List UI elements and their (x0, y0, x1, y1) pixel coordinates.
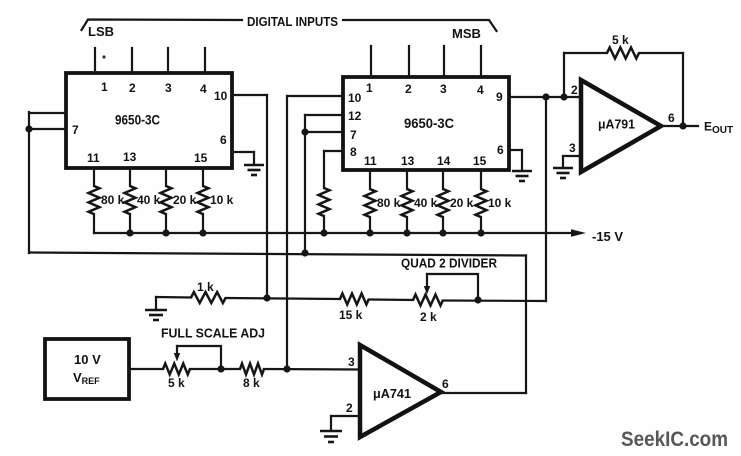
svg-text:1: 1 (101, 80, 108, 94)
wire feedback drop x=683 (682, 53, 684, 126)
wire 5k-8k segment (190, 368, 240, 370)
wire U1 pin 4 stub (204, 48, 206, 73)
wire ladder2 bottom stubs (370, 217, 481, 233)
DAC U1 9650-3C body (66, 73, 232, 168)
resistor 20k (U1 ladder) (161, 186, 172, 214)
svg-text:3: 3 (440, 82, 447, 96)
svg-text:QUAD 2 DIVIDER: QUAD 2 DIVIDER (401, 257, 497, 271)
svg-text:2: 2 (129, 81, 136, 95)
wire vertical x=324 (U2 pin8 to resistor) (323, 151, 325, 188)
svg-text:7: 7 (350, 128, 357, 142)
wire U1 pin 11 stub (93, 168, 95, 186)
junction at (267,298) (263, 294, 270, 301)
svg-text:3: 3 (348, 355, 355, 369)
junction at (221,369) (217, 365, 224, 372)
wiper arrow of 5k pot (176, 346, 178, 355)
svg-text:20 k: 20 k (173, 193, 197, 207)
svg-text:EOUT: EOUT (704, 120, 733, 137)
junction at (305,253) (301, 249, 308, 256)
wire U1 pin 14 stub (165, 168, 167, 186)
junction ladder2 at (370,233) (366, 229, 373, 236)
resistor unlabeled (U2 pin 8) (319, 188, 330, 216)
svg-text:2: 2 (346, 401, 353, 415)
wire vertical x=526 (feedback down to A741 output) (525, 256, 527, 394)
svg-text:6: 6 (497, 143, 504, 157)
ground at U3 pin 2 (320, 431, 342, 442)
svg-text:8 k: 8 k (243, 376, 260, 390)
svg-text:9650-3C: 9650-3C (404, 115, 454, 131)
wire vertical x=305 (U2 pins 12/7 to feedback wire) (304, 115, 306, 253)
svg-text:80 k: 80 k (101, 193, 125, 207)
junction ladder2 at (481,233) (477, 229, 484, 236)
svg-text:40 k: 40 k (137, 193, 161, 207)
wire U3 pin 2 segment (331, 415, 360, 417)
svg-text:2: 2 (571, 83, 578, 97)
resistor R 15k (340, 294, 369, 305)
svg-text:μA791: μA791 (598, 118, 635, 132)
resistor R 5k feedback (607, 48, 639, 59)
svg-text:DIGITAL INPUTS: DIGITAL INPUTS (247, 14, 338, 29)
ground at U4 pin 3 (553, 168, 573, 178)
svg-text:10 k: 10 k (210, 193, 234, 207)
wire U1 pin 6 horizontal (232, 151, 254, 153)
wire 15k-2k segment (369, 298, 413, 301)
wire U1 pin 1 stub (94, 48, 96, 73)
svg-text:3: 3 (165, 81, 172, 95)
wire pin8 resistor bottom stub (323, 216, 325, 233)
wire U1 pin 6 ground stub (253, 152, 255, 165)
wire U1 pin 2 stub (131, 48, 133, 73)
wire feedback top segment b (639, 52, 683, 54)
svg-text:6: 6 (668, 111, 675, 125)
ground of 1k resistor network (155, 297, 157, 310)
resistor 10k (U1 ladder) (198, 186, 209, 214)
junction at (683,126) (679, 122, 686, 129)
junction at (29,129) (25, 125, 32, 132)
wire U3 output segment (441, 392, 526, 394)
svg-text:FULL SCALE ADJ: FULL SCALE ADJ (161, 327, 265, 341)
svg-text:1: 1 (366, 81, 373, 95)
wire U3 pin 2 ground stub (330, 416, 332, 431)
resistor 80k (U1 ladder) (89, 186, 100, 214)
wire 1k net segment a (156, 296, 191, 299)
junction at (564,97) (560, 93, 567, 100)
svg-text:80 k: 80 k (377, 196, 401, 210)
junction ladder1 at (203,233) (199, 229, 206, 236)
svg-text:12: 12 (348, 109, 362, 123)
wire 5k wiper loop (177, 346, 221, 369)
svg-text:15: 15 (473, 154, 487, 168)
potentiometer R 2k (413, 295, 443, 306)
junction pin8 resistor at (324,233) (320, 229, 327, 236)
svg-text:9: 9 (496, 90, 503, 104)
resistor 40k (U1 ladder) (125, 186, 136, 214)
resistor R 8k (240, 364, 264, 375)
resistor 40k (U2 ladder) (402, 189, 413, 217)
svg-text:15: 15 (194, 151, 208, 165)
node DIGITAL INPUTS bracket right segment (343, 20, 497, 31)
wire 2k net segment to x=546 (443, 299, 546, 302)
wire U2 pin 1 stub (370, 46, 372, 77)
wire U2 pin 11 stub (369, 170, 371, 189)
wire feedback riser x=564 (563, 53, 565, 97)
resistor R 1k (191, 292, 226, 303)
wire U2 pin 2 stub (408, 46, 410, 77)
wire U1 upper-left loop segment (29, 112, 66, 114)
wire U2 pin 13 stub (406, 170, 408, 189)
wire A741 output feedback run (left vertical to x=526) (29, 253, 526, 256)
svg-text:14: 14 (437, 154, 451, 168)
svg-text:4: 4 (477, 83, 484, 97)
svg-text:μA741: μA741 (373, 387, 411, 401)
wire U2 pin 6 horizontal (509, 149, 522, 151)
wire U2 pin 14 stub (442, 170, 444, 189)
wire 8k to A741 pin 3 (264, 368, 360, 371)
wire U2 pin 3 stub (443, 46, 445, 77)
resistor 20k (U2 ladder) (438, 189, 449, 217)
junction ladder1 at (130,233) (126, 229, 133, 236)
wire vertical x=267 (U1 pin10 to 1k node) (266, 95, 268, 298)
junction ladder1 at (166,233) (162, 229, 169, 236)
svg-text:10 k: 10 k (488, 196, 512, 210)
wire 2k wiper loop (427, 274, 478, 300)
svg-text:-15 V: -15 V (592, 229, 623, 244)
svg-text:7: 7 (72, 123, 79, 137)
wire U4 pin 3 segment (563, 155, 581, 157)
wire feedback top segment a (564, 52, 607, 54)
wire U4 output segment (661, 125, 698, 127)
wire U1 pin 10 horizontal (232, 94, 267, 96)
wire U2 pin 6 ground stub (521, 150, 523, 171)
svg-text:20 k: 20 k (450, 196, 474, 210)
resistor 80k (U2 ladder) (365, 189, 376, 217)
wire left vertical x=29 (28, 112, 30, 253)
wire U2 pin 7 horizontal (305, 131, 343, 133)
svg-text:2: 2 (405, 82, 412, 96)
junction ladder2 at (443,233) (439, 229, 446, 236)
wire U2 pin 12 horizontal (305, 114, 343, 116)
ground at U2 pin 6 (512, 171, 532, 181)
wire U1 pin 15 stub (202, 168, 204, 186)
svg-text:13: 13 (401, 154, 415, 168)
wire vertical x=546 (divider node up to A791 pin 2) (545, 97, 547, 301)
junction at (305,132) (301, 128, 308, 135)
wire U1 pin 13 stub (129, 168, 131, 186)
svg-text:MSB: MSB (452, 26, 481, 41)
svg-text:11: 11 (87, 151, 100, 165)
op-amp U4 uA791 (581, 80, 661, 172)
svg-text:1 k: 1 k (197, 280, 214, 294)
wire U2 pin 9 horizontal to A791 (509, 96, 581, 98)
svg-text:13: 13 (123, 150, 137, 164)
svg-text:4: 4 (200, 82, 207, 96)
wire U1 pin 3 stub (167, 48, 169, 73)
svg-text:LSB: LSB (88, 24, 114, 39)
wiper arrow of 2k pot (426, 274, 428, 288)
wire U2 pin 10 horizontal (287, 95, 343, 97)
wire U2 pin 15 stub (480, 170, 482, 189)
svg-text:40 k: 40 k (414, 196, 438, 210)
svg-text:5 k: 5 k (168, 376, 185, 390)
svg-text:5 k: 5 k (612, 33, 629, 47)
node DIGITAL INPUTS bracket left segment (82, 20, 243, 31)
svg-text:8: 8 (350, 145, 357, 159)
ground at U1 pin 6 (244, 165, 264, 175)
DAC U2 9650-3C body (343, 77, 509, 170)
wire U2 pin 8 horizontal (324, 150, 343, 152)
svg-text:10: 10 (214, 89, 228, 103)
svg-text:10 V: 10 V (74, 352, 101, 367)
svg-text:10: 10 (348, 91, 362, 105)
wire 1k net segment b (226, 298, 340, 299)
svg-text:11: 11 (364, 154, 377, 168)
wire U2 pin 4 stub (480, 46, 482, 77)
junction at (546,97) (542, 93, 549, 100)
svg-text:2 k: 2 k (420, 310, 437, 324)
wire -15V supply bus (94, 232, 575, 234)
svg-text:SeekIC.com: SeekIC.com (621, 428, 728, 451)
svg-text:15 k: 15 k (339, 308, 363, 322)
resistor 10k (U2 ladder) (476, 189, 487, 217)
svg-text:6: 6 (442, 377, 449, 391)
wire U1 pin 7 segment (29, 128, 66, 130)
wire vertical x=287 (U2 pin10 to A741 pin3) (286, 96, 288, 369)
wire ladder1 bottom stubs (94, 214, 203, 233)
stray ink speck (102, 55, 105, 58)
junction ladder2 at (407,233) (403, 229, 410, 236)
voltage reference 10V VREF box (45, 339, 129, 399)
op-amp U3 uA741 (360, 345, 441, 437)
wire VREF output segment (129, 368, 163, 370)
svg-text:9650-3C: 9650-3C (115, 112, 160, 128)
wire U4 pin 3 ground stub (562, 156, 564, 168)
svg-text:VREF: VREF (73, 370, 100, 386)
svg-text:6: 6 (220, 133, 227, 147)
junction at (478,300) (474, 296, 481, 303)
potentiometer R 5k full scale (163, 364, 190, 375)
svg-text:3: 3 (569, 141, 576, 155)
junction at (287,369) (283, 365, 290, 372)
arrowhead -15V (571, 229, 586, 236)
